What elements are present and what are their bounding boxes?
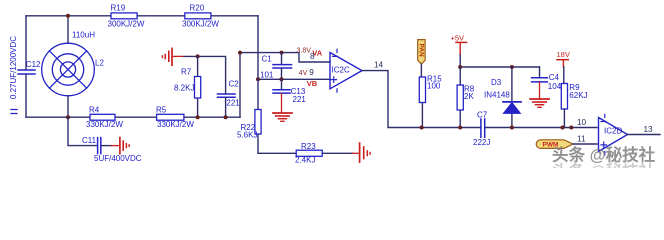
- svg-text:C1: C1: [262, 54, 273, 63]
- svg-text:104: 104: [548, 82, 562, 91]
- wire earth to R7 top: [173, 55, 184, 57]
- svg-text:C12: C12: [26, 60, 41, 69]
- node A: [238, 51, 242, 55]
- resistor R8: [457, 67, 475, 128]
- svg-text:+5V: +5V: [451, 33, 465, 42]
- svg-text:IC2C: IC2C: [332, 66, 350, 75]
- wire net B to pin 9: [258, 78, 330, 80]
- wire right drop from top rail to net B: [257, 16, 259, 80]
- svg-text:221: 221: [226, 99, 240, 108]
- wire C13 to ground: [281, 94, 283, 113]
- wire L2 top lead: [67, 16, 69, 43]
- flag PAN: [417, 40, 425, 65]
- svg-text:R23: R23: [301, 142, 316, 151]
- node R9 bottom: [561, 126, 565, 130]
- capacitor C2: [218, 79, 241, 117]
- resistor R20: [182, 3, 219, 28]
- resistor R22: [237, 110, 261, 140]
- wire PWM to pin 11: [573, 143, 597, 145]
- node R8 bottom: [458, 126, 462, 130]
- svg-text:221: 221: [293, 95, 307, 104]
- wire +5V rail: [460, 66, 539, 68]
- ground earth below C4: [530, 99, 549, 107]
- node net pin10: [569, 126, 573, 130]
- resistor R4: [86, 105, 123, 129]
- svg-text:4V: 4V: [299, 70, 308, 77]
- node R15 bottom: [420, 126, 424, 130]
- wire C4 to ground: [539, 82, 541, 98]
- resistor R7: [174, 56, 201, 117]
- diode D3: [484, 67, 521, 128]
- capacitor C4: [532, 67, 562, 91]
- svg-text:R4: R4: [89, 105, 100, 114]
- wire IC2D output: [628, 134, 661, 136]
- resistor R5: [156, 105, 194, 129]
- svg-text:14: 14: [374, 60, 384, 69]
- svg-text:R19: R19: [111, 3, 126, 12]
- svg-text:C7: C7: [477, 110, 488, 119]
- watermark: [552, 145, 656, 182]
- node B left: [256, 77, 260, 81]
- op-amp IC2D: [599, 114, 628, 155]
- wire R23 to ground: [322, 152, 352, 154]
- svg-text:11: 11: [577, 134, 586, 143]
- node junction top of L2: [66, 14, 70, 18]
- svg-text:R20: R20: [190, 3, 205, 12]
- wire C7 right to IC2D pin10: [486, 127, 597, 129]
- capacitor C11: [82, 136, 142, 163]
- svg-text:8: 8: [310, 52, 315, 61]
- svg-text:D3: D3: [491, 78, 502, 87]
- power +5V: [451, 33, 467, 67]
- node junction bottom of L2: [66, 115, 70, 119]
- node R7 bottom: [196, 115, 200, 119]
- svg-text:头条 @秘技社: 头条 @秘技社: [552, 161, 656, 168]
- svg-text:头条 @秘技社: 头条 @秘技社: [552, 145, 656, 165]
- resistor R9: [561, 83, 587, 127]
- ground earth left of R7: [162, 48, 172, 65]
- svg-text:R5: R5: [156, 105, 167, 114]
- capacitor C12: [9, 36, 41, 114]
- op-amp IC2C: [330, 49, 362, 92]
- svg-text:110uH: 110uH: [72, 31, 95, 40]
- ground earth right of C11: [120, 138, 129, 154]
- svg-text:18V: 18V: [557, 50, 570, 59]
- svg-text:5UF/400VDC: 5UF/400VDC: [94, 154, 142, 163]
- svg-text:222J: 222J: [473, 138, 490, 147]
- svg-text:101: 101: [260, 70, 274, 79]
- wire L2 bottom lead: [67, 96, 69, 117]
- wire IC2C output: [362, 71, 480, 128]
- svg-text:5.6KJ: 5.6KJ: [237, 131, 257, 140]
- svg-text:C2: C2: [229, 79, 240, 88]
- svg-text:62KJ: 62KJ: [569, 91, 587, 100]
- node rail R8: [458, 65, 462, 69]
- resistor R19: [108, 3, 145, 28]
- wire left vertical lower: [25, 74, 27, 117]
- capacitor C1: [260, 53, 292, 80]
- svg-text:PAN: PAN: [417, 44, 424, 58]
- svg-text:IN4148: IN4148: [484, 90, 510, 99]
- wire feedback riser to node A: [239, 53, 241, 118]
- svg-text:C11: C11: [82, 136, 97, 145]
- ground earth below C13: [273, 113, 292, 121]
- wire R22 bottom run: [258, 79, 296, 153]
- resistor R23: [295, 142, 322, 164]
- node C2 bottom: [224, 115, 228, 119]
- wire C11 to ground: [102, 145, 112, 147]
- wire bottom rail: [26, 116, 240, 118]
- flag PWM: [536, 140, 573, 149]
- capacitor C7: [473, 110, 490, 147]
- node R7 top: [196, 54, 200, 58]
- svg-text:100: 100: [427, 82, 441, 91]
- svg-text:300KJ/2W: 300KJ/2W: [108, 20, 145, 29]
- wire top rail: [26, 15, 258, 17]
- svg-text:R7: R7: [181, 67, 192, 76]
- svg-text:2K: 2K: [464, 92, 474, 101]
- wire C11 branch: [68, 117, 97, 145]
- wire net A to pin 8: [240, 53, 330, 62]
- svg-text:2.4KJ: 2.4KJ: [295, 155, 315, 164]
- svg-text:IC2D: IC2D: [604, 126, 622, 135]
- node C13 top: [280, 77, 284, 81]
- node D3 bottom: [510, 126, 514, 130]
- inductor L2: [42, 31, 105, 96]
- svg-text:13: 13: [644, 125, 654, 134]
- svg-text:10: 10: [577, 118, 587, 127]
- svg-text:8.2KJ: 8.2KJ: [174, 84, 194, 93]
- node C1 top: [280, 51, 284, 55]
- svg-text:300KJ/2W: 300KJ/2W: [182, 20, 219, 29]
- svg-text:VB: VB: [307, 79, 318, 88]
- svg-text:C4: C4: [549, 73, 560, 82]
- svg-text:L2: L2: [95, 59, 104, 68]
- power 18V: [557, 50, 570, 84]
- svg-text:0.27UF/1200VDC: 0.27UF/1200VDC: [9, 36, 18, 99]
- svg-text:330KJ/2W: 330KJ/2W: [86, 120, 123, 129]
- svg-text:9: 9: [309, 68, 314, 77]
- capacitor C13: [273, 79, 306, 104]
- svg-text:330KJ/2W: 330KJ/2W: [157, 120, 194, 129]
- wire left vertical upper: [25, 16, 27, 70]
- ground earth right of R23: [360, 143, 371, 162]
- resistor R15: [419, 64, 442, 127]
- node D3 top: [510, 65, 514, 69]
